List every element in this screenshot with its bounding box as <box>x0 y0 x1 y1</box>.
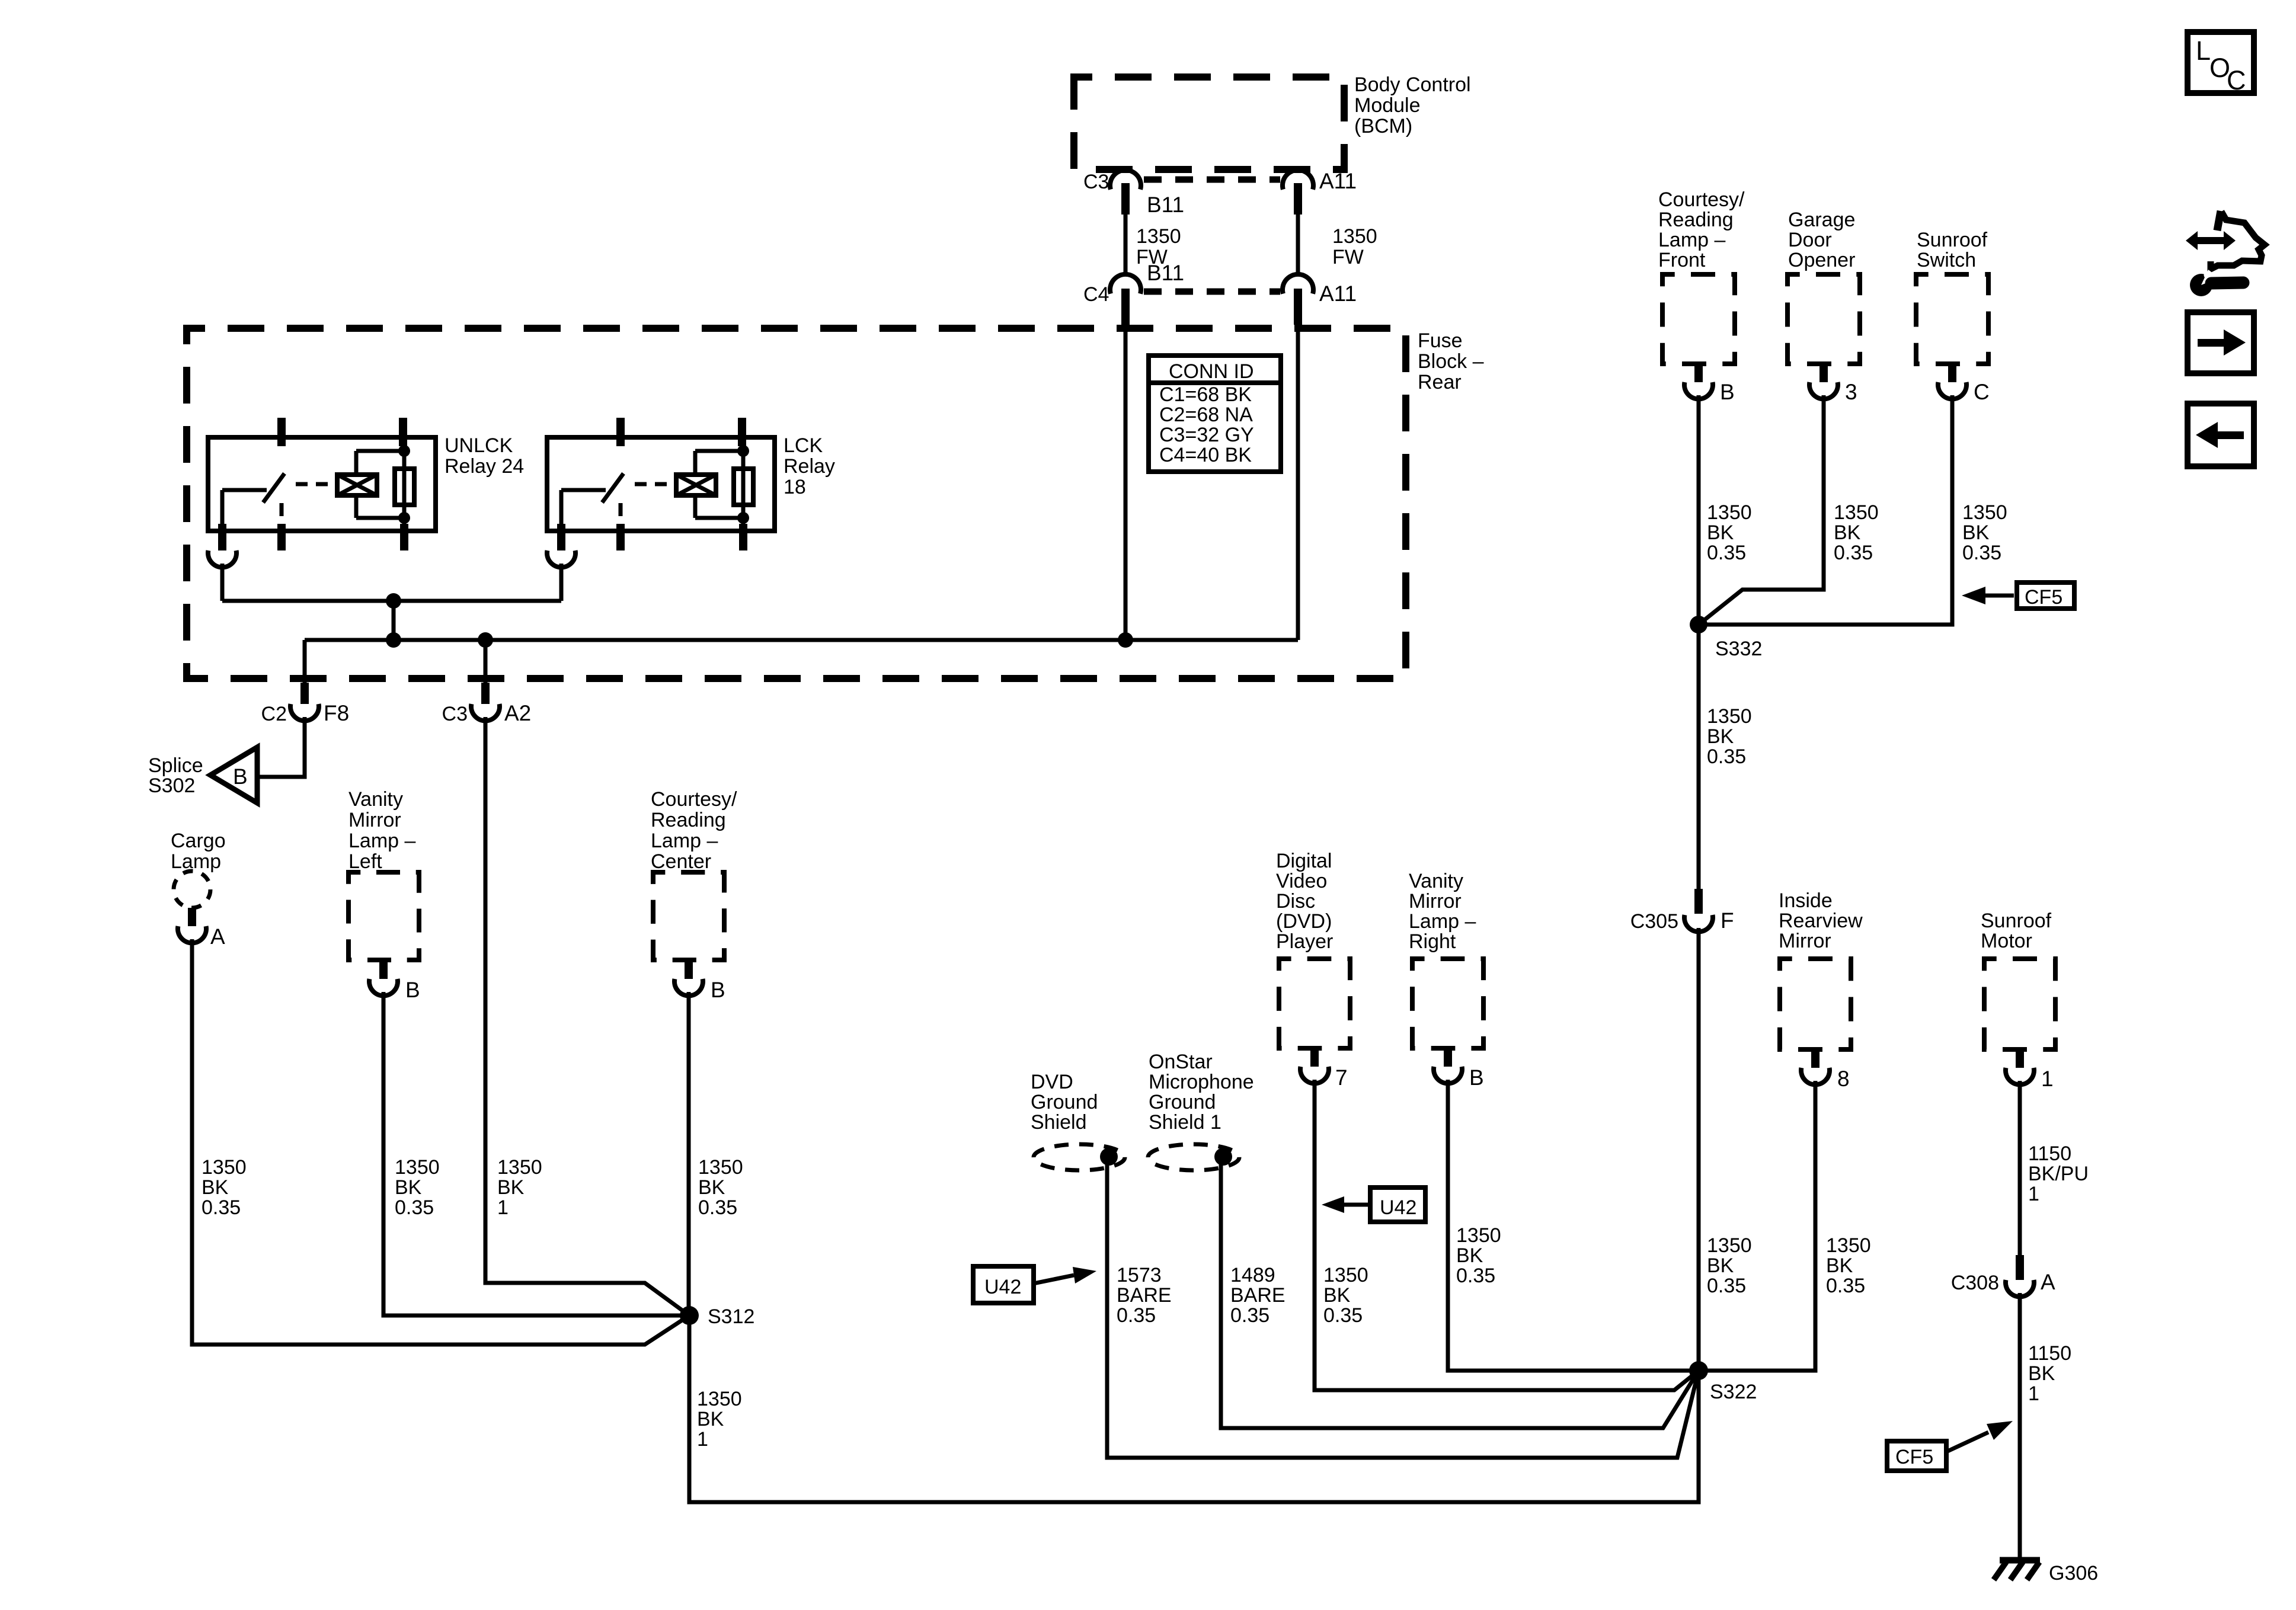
svg-text:0.35: 0.35 <box>1834 542 1873 564</box>
svg-text:1350: 1350 <box>697 1388 742 1410</box>
svg-text:Garage: Garage <box>1788 209 1855 231</box>
svg-text:BARE: BARE <box>1230 1284 1285 1307</box>
svg-text:Microphone: Microphone <box>1149 1071 1254 1093</box>
svg-text:C: C <box>2227 65 2246 95</box>
svg-text:A2: A2 <box>504 701 531 725</box>
svg-text:1: 1 <box>497 1196 509 1219</box>
svg-text:Vanity: Vanity <box>1409 870 1463 892</box>
svg-text:Digital: Digital <box>1276 850 1332 872</box>
svg-text:1350: 1350 <box>395 1156 440 1179</box>
svg-text:CF5: CF5 <box>1895 1446 1933 1468</box>
svg-text:LCK: LCK <box>784 434 823 457</box>
svg-text:BK: BK <box>1834 521 1861 544</box>
svg-text:3: 3 <box>1845 380 1857 404</box>
svg-text:Courtesy/: Courtesy/ <box>651 788 737 811</box>
svg-text:Switch: Switch <box>1917 249 1976 271</box>
svg-text:BK: BK <box>497 1176 525 1199</box>
svg-text:OnStar: OnStar <box>1149 1051 1213 1073</box>
svg-text:Splice: Splice <box>148 754 203 777</box>
svg-text:BK: BK <box>698 1176 725 1199</box>
svg-text:C4: C4 <box>1083 283 1109 306</box>
svg-text:C2=68 NA: C2=68 NA <box>1159 404 1253 426</box>
svg-text:0.35: 0.35 <box>1230 1304 1269 1327</box>
svg-text:1350: 1350 <box>1962 501 2007 524</box>
svg-text:BK: BK <box>2028 1362 2055 1385</box>
svg-text:BK: BK <box>1456 1244 1483 1267</box>
svg-text:BK: BK <box>1323 1284 1351 1307</box>
svg-text:C4=40 BK: C4=40 BK <box>1159 444 1252 466</box>
svg-text:C3: C3 <box>1083 171 1109 193</box>
svg-text:B: B <box>233 764 248 789</box>
svg-text:Mirror: Mirror <box>348 809 401 831</box>
svg-text:1: 1 <box>2041 1067 2054 1091</box>
svg-text:18: 18 <box>784 476 806 498</box>
svg-text:A11: A11 <box>1319 281 1357 306</box>
svg-text:UNLCK: UNLCK <box>445 434 513 457</box>
svg-text:(BCM): (BCM) <box>1354 115 1412 137</box>
svg-text:C2: C2 <box>261 703 287 725</box>
svg-text:0.35: 0.35 <box>1323 1304 1363 1327</box>
svg-text:Module: Module <box>1354 94 1421 117</box>
svg-text:1350: 1350 <box>1834 501 1879 524</box>
svg-text:BK: BK <box>697 1408 724 1430</box>
svg-text:Rear: Rear <box>1418 371 1462 393</box>
svg-text:C305: C305 <box>1630 910 1678 933</box>
svg-text:0.35: 0.35 <box>1707 745 1746 768</box>
svg-text:Disc: Disc <box>1276 890 1315 913</box>
svg-text:BK/PU: BK/PU <box>2028 1163 2089 1185</box>
svg-text:1350: 1350 <box>497 1156 542 1179</box>
svg-text:BK: BK <box>202 1176 229 1199</box>
svg-text:CONN ID: CONN ID <box>1169 360 1254 383</box>
svg-text:G306: G306 <box>2049 1562 2098 1585</box>
svg-text:A: A <box>2041 1270 2055 1294</box>
svg-text:S302: S302 <box>148 774 195 797</box>
svg-text:S332: S332 <box>1715 638 1762 660</box>
svg-text:FW: FW <box>1136 246 1168 268</box>
svg-text:BK: BK <box>1826 1254 1853 1277</box>
svg-text:Mirror: Mirror <box>1409 890 1462 913</box>
svg-text:0.35: 0.35 <box>1826 1275 1865 1297</box>
svg-text:B: B <box>1720 380 1735 404</box>
svg-text:A: A <box>210 924 225 949</box>
svg-text:Inside: Inside <box>1779 889 1833 912</box>
svg-text:1: 1 <box>2028 1382 2039 1405</box>
svg-text:Left: Left <box>348 850 382 873</box>
svg-text:1350: 1350 <box>1136 225 1181 248</box>
svg-text:1: 1 <box>2028 1183 2039 1205</box>
svg-text:BK: BK <box>1707 521 1734 544</box>
svg-text:Front: Front <box>1658 249 1706 271</box>
svg-text:1489: 1489 <box>1230 1264 1275 1286</box>
svg-text:Lamp –: Lamp – <box>651 830 718 852</box>
svg-text:Fuse: Fuse <box>1418 329 1463 352</box>
svg-text:Lamp –: Lamp – <box>1658 229 1725 251</box>
svg-text:1350: 1350 <box>1456 1224 1501 1247</box>
svg-text:0.35: 0.35 <box>1707 1275 1746 1297</box>
svg-text:Video: Video <box>1276 870 1327 892</box>
svg-text:1150: 1150 <box>2028 1342 2071 1365</box>
svg-text:DVD: DVD <box>1031 1071 1073 1093</box>
svg-text:BK: BK <box>1707 725 1734 748</box>
svg-text:1350: 1350 <box>1707 1234 1752 1257</box>
svg-text:1350: 1350 <box>1332 225 1377 248</box>
svg-text:S312: S312 <box>708 1305 754 1328</box>
svg-text:Relay: Relay <box>784 455 835 478</box>
svg-text:Right: Right <box>1409 930 1456 953</box>
svg-text:Shield: Shield <box>1031 1111 1087 1134</box>
svg-text:C308: C308 <box>1951 1272 1999 1294</box>
svg-text:B: B <box>405 978 420 1002</box>
svg-text:Ground: Ground <box>1031 1091 1098 1113</box>
svg-text:Rearview: Rearview <box>1779 910 1863 932</box>
svg-text:Body Control: Body Control <box>1354 73 1471 96</box>
svg-text:(DVD): (DVD) <box>1276 910 1332 933</box>
svg-text:Sunroof: Sunroof <box>1981 910 2052 932</box>
svg-text:F: F <box>1721 908 1734 933</box>
svg-text:Motor: Motor <box>1981 930 2032 952</box>
svg-text:C3=32 GY: C3=32 GY <box>1159 424 1254 446</box>
svg-text:Lamp –: Lamp – <box>1409 910 1476 933</box>
svg-text:Reading: Reading <box>651 809 726 831</box>
svg-text:U42: U42 <box>984 1276 1021 1298</box>
svg-text:0.35: 0.35 <box>1962 542 2001 564</box>
svg-text:0.35: 0.35 <box>1117 1304 1156 1327</box>
svg-text:BARE: BARE <box>1117 1284 1172 1307</box>
svg-text:1350: 1350 <box>1707 501 1752 524</box>
svg-text:Lamp: Lamp <box>171 850 221 873</box>
svg-text:1350: 1350 <box>1707 705 1752 728</box>
svg-text:Relay 24: Relay 24 <box>445 455 524 478</box>
svg-text:1350: 1350 <box>1323 1264 1368 1286</box>
svg-text:Opener: Opener <box>1788 249 1855 271</box>
svg-text:C1=68 BK: C1=68 BK <box>1159 383 1252 406</box>
svg-text:B: B <box>1469 1065 1484 1090</box>
svg-text:S322: S322 <box>1710 1381 1757 1403</box>
svg-text:C: C <box>1974 380 1990 404</box>
svg-text:Sunroof: Sunroof <box>1917 229 1988 251</box>
svg-text:0.35: 0.35 <box>395 1196 434 1219</box>
svg-text:1: 1 <box>697 1428 708 1451</box>
svg-text:CF5: CF5 <box>2025 586 2062 609</box>
svg-text:BK: BK <box>395 1176 422 1199</box>
svg-text:Courtesy/: Courtesy/ <box>1658 188 1745 211</box>
svg-text:Reading: Reading <box>1658 209 1734 231</box>
svg-text:C3: C3 <box>442 703 468 725</box>
svg-text:Center: Center <box>651 850 711 873</box>
svg-text:0.35: 0.35 <box>1707 542 1746 564</box>
svg-text:Ground: Ground <box>1149 1091 1216 1113</box>
svg-text:A11: A11 <box>1319 169 1357 193</box>
svg-text:0.35: 0.35 <box>202 1196 241 1219</box>
svg-text:F8: F8 <box>324 701 349 725</box>
svg-text:Shield 1: Shield 1 <box>1149 1111 1221 1134</box>
svg-text:Block –: Block – <box>1418 350 1484 373</box>
svg-text:7: 7 <box>1335 1065 1348 1090</box>
svg-text:1150: 1150 <box>2028 1142 2071 1165</box>
svg-text:Mirror: Mirror <box>1779 930 1831 952</box>
svg-text:BK: BK <box>1707 1254 1734 1277</box>
svg-text:U42: U42 <box>1380 1196 1416 1219</box>
svg-text:8: 8 <box>1837 1067 1850 1091</box>
svg-text:1573: 1573 <box>1117 1264 1162 1286</box>
svg-text:0.35: 0.35 <box>1456 1265 1495 1287</box>
svg-text:Lamp –: Lamp – <box>348 830 415 852</box>
svg-text:1350: 1350 <box>698 1156 743 1179</box>
svg-text:L: L <box>2196 36 2211 66</box>
svg-text:Cargo: Cargo <box>171 830 226 852</box>
svg-text:BK: BK <box>1962 521 1990 544</box>
svg-text:Player: Player <box>1276 930 1333 953</box>
svg-text:1350: 1350 <box>1826 1234 1871 1257</box>
svg-text:Door: Door <box>1788 229 1832 251</box>
svg-text:B11: B11 <box>1147 193 1184 217</box>
svg-text:0.35: 0.35 <box>698 1196 737 1219</box>
svg-text:1350: 1350 <box>202 1156 247 1179</box>
svg-text:B: B <box>711 978 725 1002</box>
svg-text:FW: FW <box>1332 246 1364 268</box>
svg-text:Vanity: Vanity <box>348 788 403 811</box>
